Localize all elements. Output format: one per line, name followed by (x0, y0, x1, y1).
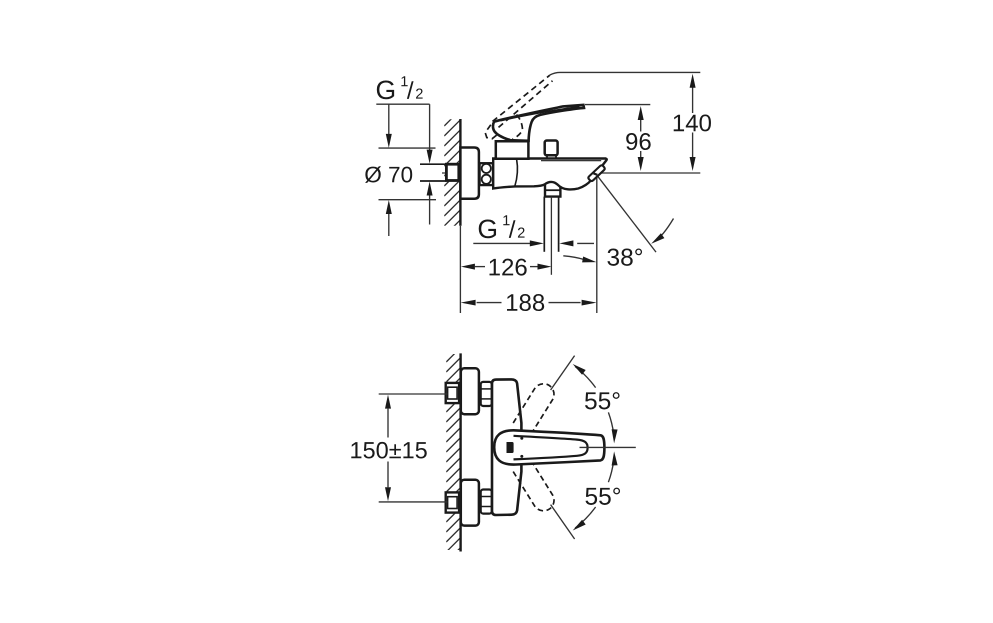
escutcheon (top view, side) (460, 148, 479, 199)
diverter knob (547, 155, 556, 159)
cartridge cap under lever (496, 141, 529, 159)
handle centre line (580, 446, 636, 448)
dimension 140 (692, 88, 694, 114)
55 lower arc (575, 507, 596, 528)
upper connection hex (481, 382, 492, 406)
handle lowered 55 (dashed) (513, 460, 554, 510)
38 degree text (607, 248, 619, 265)
handle indicator spot (507, 442, 514, 453)
dimension: raised lever top reference line (140 upper) (550, 72, 701, 75)
lower S-union nut (446, 492, 459, 512)
faucet body barrel and spout (top view) (493, 159, 607, 190)
barrel cone seam (515, 159, 518, 186)
handle (front view) (494, 430, 604, 464)
handle raised 55 (dashed) (513, 384, 554, 434)
wall face line (front view) (459, 353, 461, 551)
faucet centerline / spout reference line (479, 172, 701, 174)
mixer body (front view) (492, 379, 521, 515)
shower outlet collar (545, 183, 560, 197)
wall hatching (front view) (446, 338, 460, 572)
dimension G1/2 (shower hose) label (479, 219, 496, 238)
spout inner top line (541, 160, 601, 162)
supply pipe centerline (dash-dot) (442, 172, 479, 174)
handle inner contour (514, 436, 588, 460)
aerator at spout tip (588, 165, 604, 181)
lever top inner line (501, 107, 580, 121)
dimension 96 (640, 119, 642, 132)
38 degree arc arrow (lower) (563, 256, 584, 260)
lower escutcheon plate (461, 480, 479, 526)
lever nose inner curve (499, 135, 511, 140)
dimension: lever top reference line (96 upper) (585, 104, 650, 106)
dimension 188 (459, 226, 461, 313)
supply pipe in wall (420, 164, 446, 181)
38 degree arc arrow (upper) (655, 219, 674, 242)
upper escutcheon plate (461, 368, 479, 414)
dimension 150 +/- 15 (379, 393, 448, 395)
dimension 126 (475, 266, 485, 268)
dimension G1/2 (wall thread) label (377, 80, 394, 99)
wall hatching (top view) (444, 100, 460, 246)
spout angle leader line (597, 175, 656, 252)
55 lower extension line (551, 505, 575, 539)
hex union nut (top view) (480, 163, 493, 185)
55 upper extension line (551, 356, 575, 390)
upper S-union nut (446, 383, 459, 403)
lever raised position (dashed) (485, 75, 552, 139)
supply pipe square nut (G1/2 thread) (446, 164, 458, 180)
lever handle (closed position) (493, 105, 584, 141)
55 upper arc (575, 367, 596, 388)
shower hose pipe (543, 197, 545, 252)
wall face line (top view) (459, 119, 461, 226)
lower connection hex (481, 490, 492, 514)
dimension Ø70 (379, 147, 436, 149)
shower pipe centerline extension (550, 197, 552, 275)
handle screw dots (520, 437, 523, 440)
